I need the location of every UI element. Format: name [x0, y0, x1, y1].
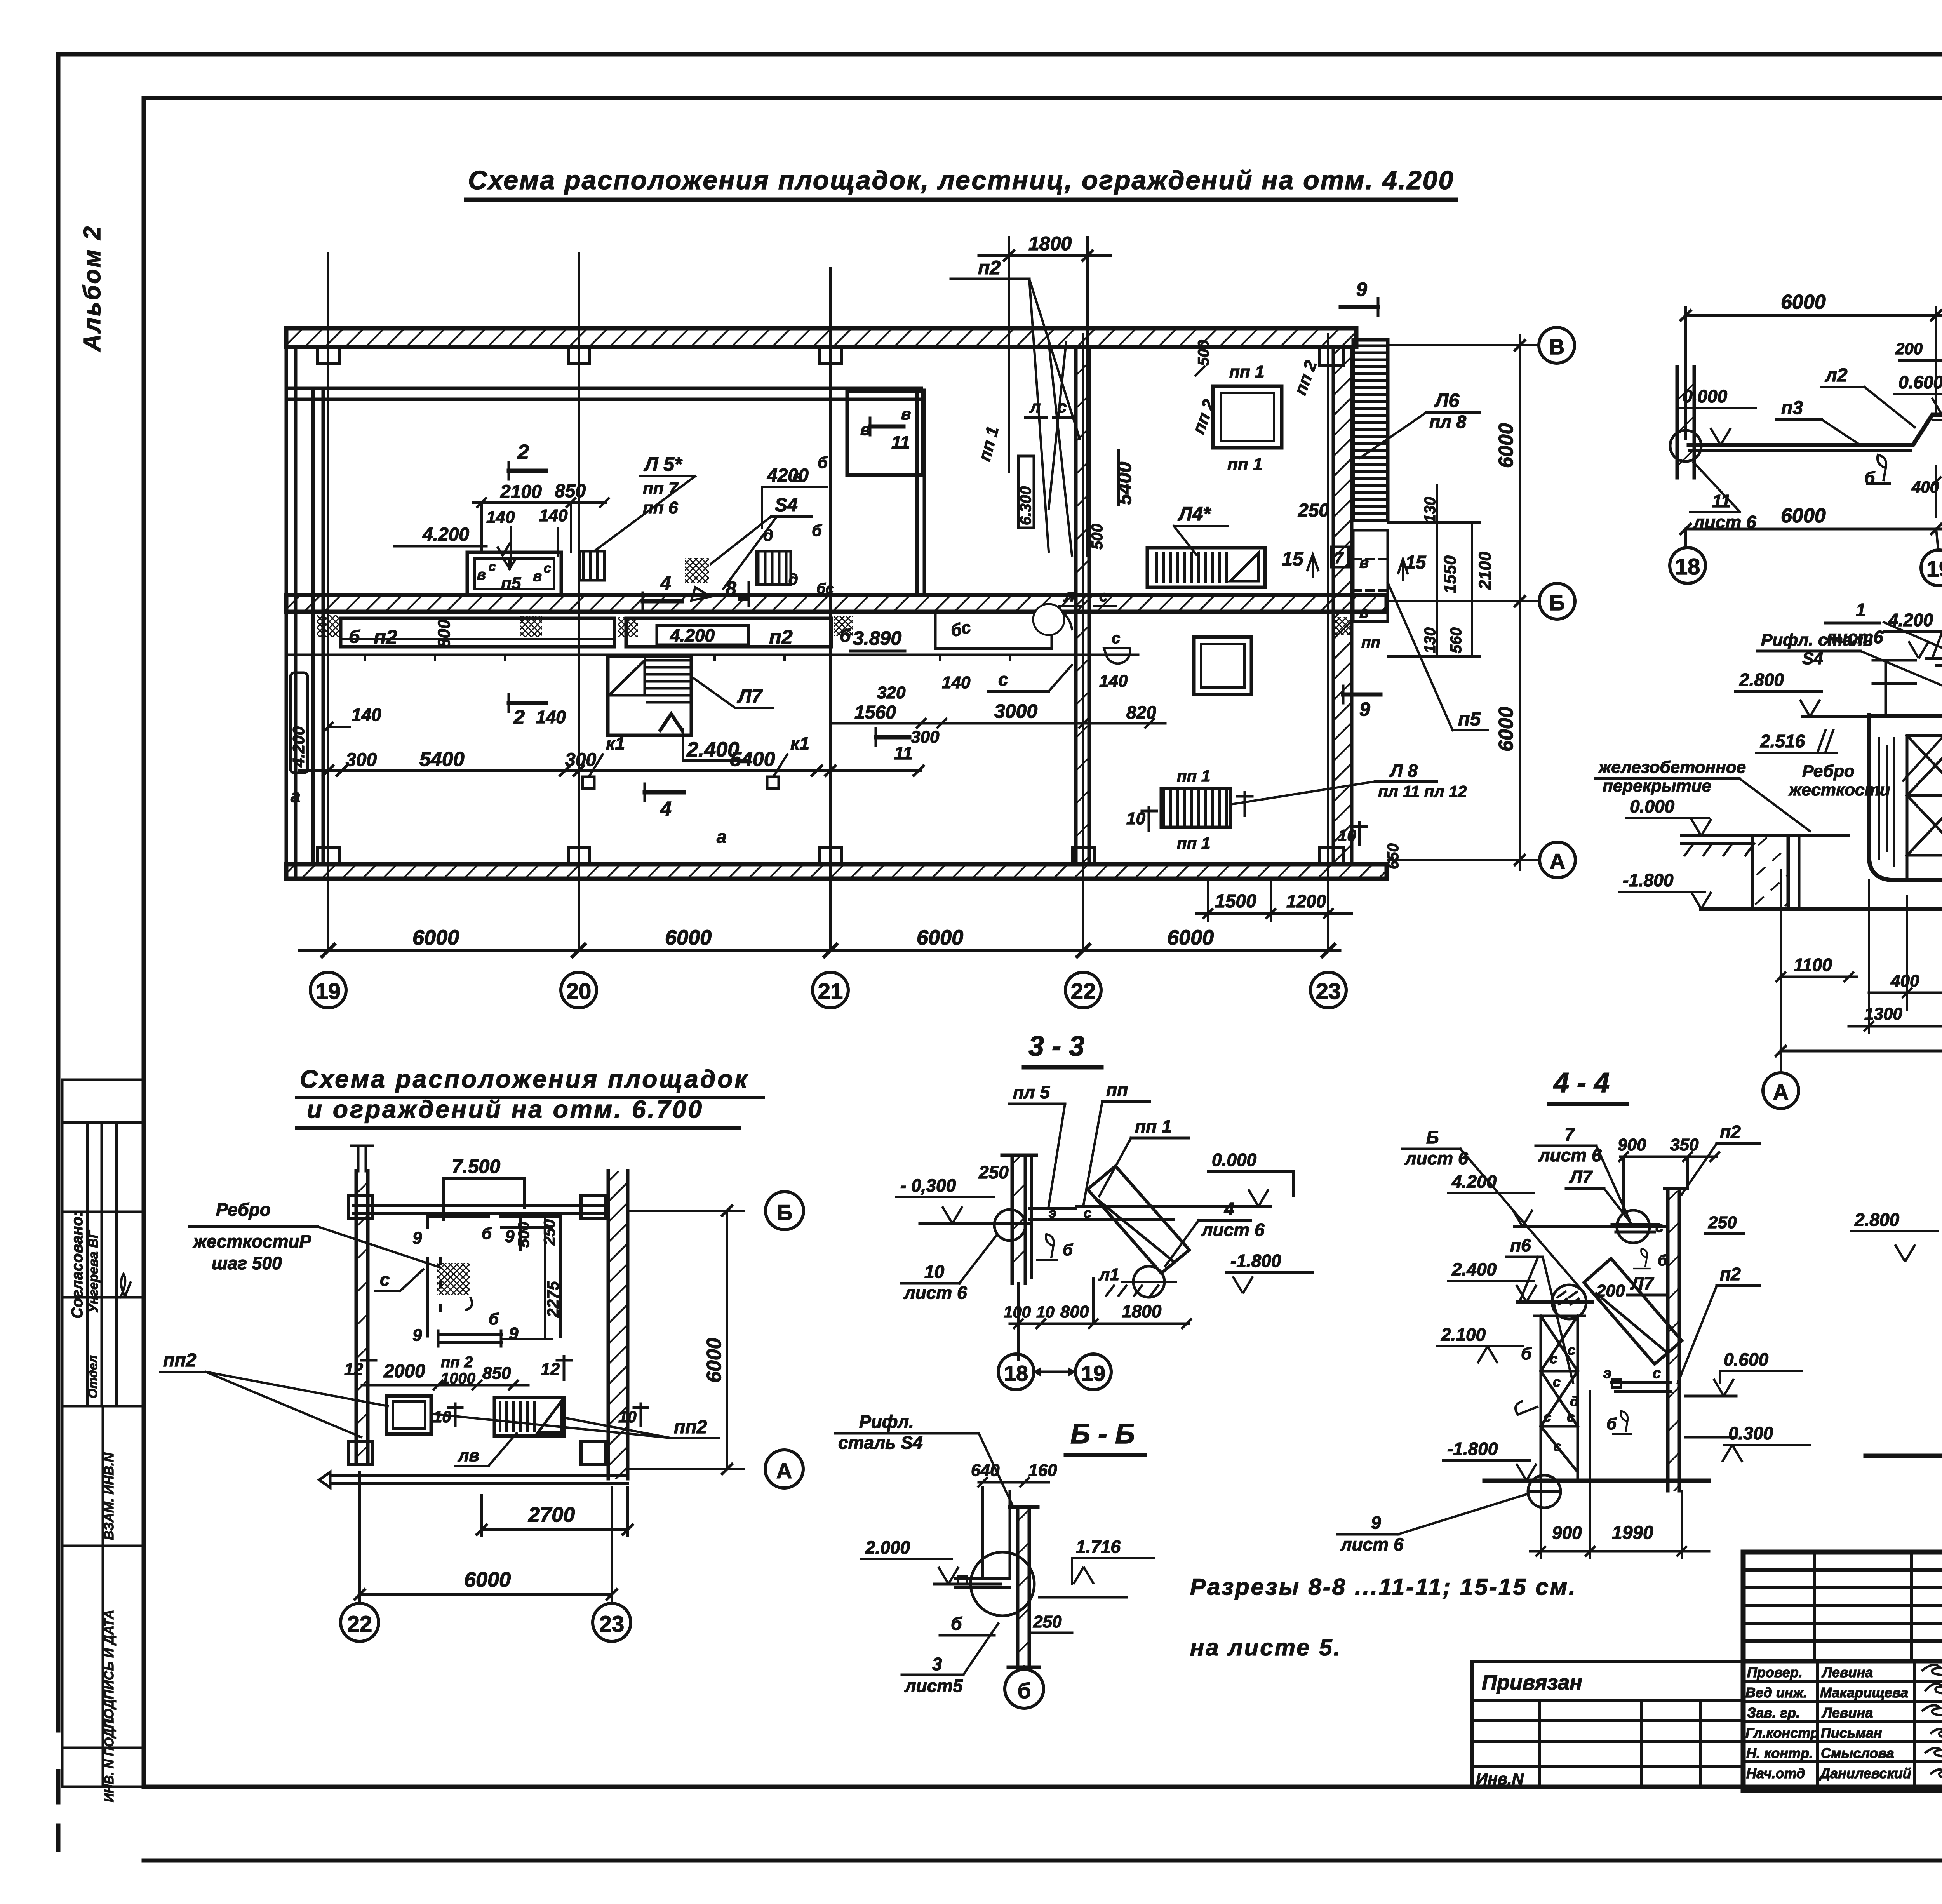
svg-text:Л 5*: Л 5*	[644, 453, 683, 475]
svg-text:Унгерева ВГ: Унгерева ВГ	[86, 1229, 101, 1313]
svg-text:4.200: 4.200	[1888, 610, 1933, 630]
svg-text:в: в	[477, 567, 486, 583]
svg-text:лист 6: лист 6	[903, 1283, 967, 1303]
svg-text:7.500: 7.500	[452, 1156, 500, 1177]
svg-text:пп: пп	[1361, 634, 1380, 651]
svg-text:Л7: Л7	[737, 686, 763, 707]
svg-text:2100: 2100	[500, 482, 542, 502]
svg-text:21: 21	[818, 979, 843, 1004]
svg-text:19: 19	[1926, 557, 1942, 582]
svg-text:п2: п2	[978, 257, 1001, 278]
left margin stamp column	[62, 1080, 144, 1787]
svg-text:11: 11	[891, 432, 910, 453]
svg-text:3000: 3000	[994, 700, 1037, 722]
svg-text:1560: 1560	[854, 702, 896, 723]
svg-text:2: 2	[513, 706, 525, 729]
svg-text:6000: 6000	[1495, 707, 1517, 752]
axis line 21	[829, 268, 832, 950]
axis circle А	[1763, 1073, 1799, 1109]
svg-text:2.516: 2.516	[1760, 731, 1805, 751]
svg-text:S4: S4	[775, 495, 798, 515]
svg-text:шаг 500: шаг 500	[212, 1253, 282, 1273]
svg-text:э: э	[1603, 1365, 1611, 1382]
top beam	[353, 1206, 608, 1213]
svg-text:850: 850	[555, 481, 586, 501]
svg-text:пп 1: пп 1	[1229, 362, 1264, 381]
svg-text:500: 500	[515, 1222, 532, 1248]
svg-text:-1.800: -1.800	[1230, 1251, 1281, 1271]
svg-text:пп2: пп2	[163, 1350, 197, 1371]
bottom dim line 6000 6000 6000	[1686, 528, 1942, 531]
svg-text:10: 10	[924, 1262, 945, 1282]
ground line	[1484, 1479, 1709, 1483]
post with hatch	[1012, 1155, 1025, 1283]
svg-text:2.400: 2.400	[1451, 1259, 1497, 1279]
top dim line 6000 6000 200 200 5400 400	[1686, 314, 1942, 317]
middle wall row Б	[286, 595, 1387, 612]
6.300 vertical box	[1018, 456, 1034, 528]
svg-text:Л7: Л7	[1569, 1167, 1593, 1187]
svg-text:1300: 1300	[1864, 1004, 1902, 1023]
svg-text:Нач.отд: Нач.отд	[1746, 1765, 1805, 1781]
svg-text:8: 8	[726, 578, 736, 599]
svg-text:11: 11	[1712, 491, 1731, 511]
mesh blob + arrow S4	[685, 558, 709, 583]
svg-text:140: 140	[352, 705, 381, 725]
svg-text:пп 1: пп 1	[1135, 1116, 1172, 1136]
svg-text:пл 8: пл 8	[1429, 412, 1466, 432]
svg-text:20: 20	[566, 979, 592, 1004]
svg-text:-1.800: -1.800	[1623, 870, 1674, 890]
svg-text:б: б	[1606, 1415, 1617, 1433]
svg-text:Зав. гр.: Зав. гр.	[1747, 1705, 1800, 1721]
svg-text:Смыслова: Смыслова	[1821, 1745, 1894, 1761]
svg-text:130: 130	[1422, 497, 1439, 523]
svg-text:1550: 1550	[1441, 555, 1460, 593]
svg-text:ВЗАМ. ИНВ.N: ВЗАМ. ИНВ.N	[102, 1452, 117, 1540]
svg-text:Б: Б	[777, 1200, 792, 1225]
svg-text:6000: 6000	[1781, 505, 1826, 527]
svg-text:2000: 2000	[383, 1361, 425, 1382]
upper interior wall	[286, 388, 921, 399]
lower stamp main horizontals	[1743, 1659, 1942, 1664]
svg-text:11: 11	[894, 743, 913, 763]
svg-text:350: 350	[1670, 1135, 1699, 1154]
platform lines	[1029, 1209, 1173, 1220]
svg-text:п5: п5	[501, 574, 521, 593]
svg-text:130: 130	[1422, 627, 1439, 653]
svg-text:6000: 6000	[1781, 291, 1826, 313]
svg-text:с: с	[1553, 1374, 1561, 1390]
svg-text:1100: 1100	[1794, 955, 1832, 975]
svg-text:6000: 6000	[703, 1338, 726, 1383]
svg-text:Б - Б: Б - Б	[1070, 1418, 1135, 1450]
п5 platform mid-plan	[467, 552, 561, 595]
svg-text:б: б	[951, 1613, 962, 1634]
sheet outer border top	[58, 52, 1942, 57]
svg-text:2.100: 2.100	[1441, 1324, 1486, 1345]
svg-text:пп 7: пп 7	[643, 479, 679, 498]
svg-text:9: 9	[412, 1229, 422, 1248]
foundation hatched	[1752, 836, 1788, 908]
stair block at 1950 on wall Б	[757, 551, 791, 585]
bottom column stubs	[318, 847, 339, 864]
svg-text:6000: 6000	[1495, 423, 1517, 468]
svg-text:850: 850	[482, 1364, 511, 1383]
svg-text:10: 10	[1338, 826, 1356, 844]
svg-text:6000: 6000	[464, 1568, 511, 1591]
svg-text:Б: Б	[1426, 1127, 1439, 1147]
svg-text:23: 23	[1316, 979, 1341, 1004]
svg-text:140: 140	[536, 707, 566, 727]
svg-text:б: б	[1521, 1344, 1532, 1363]
svg-text:22: 22	[1071, 979, 1096, 1004]
svg-text:3: 3	[932, 1654, 942, 1674]
room box right of stair	[847, 392, 922, 475]
axis circle 22	[341, 1603, 379, 1641]
svg-text:9: 9	[505, 1227, 515, 1246]
svg-text:д: д	[788, 571, 798, 588]
column stubs under top wall	[318, 347, 339, 364]
svg-text:с: с	[1084, 1205, 1091, 1221]
svg-text:3 - 3: 3 - 3	[1028, 1031, 1084, 1062]
svg-text:к1: к1	[606, 733, 625, 754]
signature	[120, 1274, 131, 1297]
axis line 23	[1327, 334, 1329, 950]
svg-text:лист 6: лист 6	[1201, 1220, 1265, 1240]
svg-text:на листе 5.: на листе 5.	[1190, 1634, 1342, 1660]
svg-text:4.200: 4.200	[670, 625, 715, 646]
platform lower right	[1611, 1383, 1670, 1391]
svg-text:Данилевский: Данилевский	[1819, 1765, 1911, 1781]
rail posts above tank	[1873, 660, 1916, 715]
svg-text:900: 900	[1552, 1523, 1582, 1543]
bottom edge	[330, 1476, 628, 1484]
vertical 4.200 box on left wall	[291, 673, 308, 773]
svg-text:6000: 6000	[917, 926, 963, 949]
svg-text:п5: п5	[1458, 708, 1481, 730]
svg-text:с: с	[380, 1269, 390, 1290]
right wall hatched	[1668, 1191, 1679, 1491]
svg-text:Ребро: Ребро	[216, 1199, 271, 1220]
svg-text:4: 4	[660, 572, 671, 594]
svg-text:4 - 4: 4 - 4	[1553, 1067, 1610, 1098]
svg-text:лист5: лист5	[904, 1676, 963, 1696]
svg-text:пп2: пп2	[674, 1417, 707, 1438]
svg-text:1800: 1800	[1028, 233, 1072, 254]
svg-text:А: А	[776, 1458, 792, 1483]
X brace tower	[1534, 1316, 1585, 1481]
svg-text:с: с	[1655, 1219, 1664, 1236]
svg-text:Отдел: Отдел	[86, 1355, 100, 1398]
svg-text:б: б	[1063, 1241, 1073, 1259]
svg-text:Вед инж.: Вед инж.	[1745, 1685, 1807, 1700]
ground line	[1865, 1454, 1942, 1458]
svg-text:пп 1: пп 1	[1227, 455, 1262, 474]
svg-text:железобетонное: железобетонное	[1598, 758, 1746, 777]
svg-text:Левина: Левина	[1821, 1664, 1873, 1680]
axis circle 19	[310, 972, 346, 1008]
svg-text:Л 8: Л 8	[1389, 761, 1418, 781]
svg-text:Провер.: Провер.	[1747, 1664, 1803, 1680]
svg-text:Рифл.: Рифл.	[859, 1411, 914, 1432]
svg-text:23: 23	[599, 1612, 625, 1637]
svg-text:А: А	[1550, 849, 1565, 874]
svg-text:250: 250	[978, 1162, 1009, 1182]
railing room	[428, 1217, 561, 1336]
svg-text:л2: л2	[1825, 365, 1848, 386]
svg-text:18: 18	[1004, 1361, 1028, 1385]
svg-text:в: в	[533, 568, 542, 585]
svg-text:6000: 6000	[665, 926, 712, 949]
platform bars	[955, 1579, 1010, 1588]
left support column hatched	[1677, 367, 1694, 478]
svg-text:200: 200	[1895, 339, 1923, 358]
top exterior wall row В	[286, 328, 1356, 347]
svg-text:500: 500	[1089, 524, 1106, 550]
svg-text:1200: 1200	[1286, 891, 1326, 911]
svg-text:жесткостиР: жесткостиР	[192, 1231, 311, 1251]
svg-text:с: с	[1550, 1351, 1557, 1366]
svg-text:пл 11 пл 12: пл 11 пл 12	[1378, 782, 1467, 801]
tank left	[1869, 715, 1942, 880]
svg-text:В: В	[1549, 334, 1564, 359]
пп2 opening	[386, 1396, 431, 1434]
axis circle 23	[1310, 972, 1346, 1008]
svg-text:10: 10	[618, 1408, 637, 1426]
floor slab	[1682, 836, 1849, 844]
svg-text:7: 7	[1335, 550, 1344, 567]
right exterior wall hatched	[1333, 347, 1352, 864]
stamp outer box	[1743, 1552, 1942, 1791]
square opening lower	[1194, 637, 1251, 694]
svg-text:лист 6: лист 6	[1538, 1145, 1602, 1165]
signatures	[1923, 1665, 1942, 1778]
п2 platform strip left	[341, 618, 614, 647]
svg-text:4: 4	[1224, 1199, 1234, 1219]
vertical dim 6000 6000 right	[1519, 335, 1521, 870]
svg-text:в: в	[1359, 604, 1369, 621]
corner columns	[349, 1196, 373, 1218]
svg-text:пл 5: пл 5	[1013, 1082, 1050, 1102]
X brace column	[1907, 736, 1942, 880]
svg-text:400: 400	[1890, 971, 1919, 990]
svg-text:640: 640	[971, 1461, 1000, 1480]
svg-text:в: в	[901, 405, 911, 423]
room partition vertical at 2372	[917, 390, 924, 595]
svg-text:1990: 1990	[1612, 1523, 1653, 1543]
svg-text:жесткости: жесткости	[1788, 780, 1890, 799]
svg-text:250: 250	[1033, 1612, 1062, 1631]
svg-text:к1: к1	[790, 733, 809, 754]
svg-text:ПОДПИСЬ И ДАТА: ПОДПИСЬ И ДАТА	[102, 1610, 117, 1728]
svg-text:250: 250	[1708, 1213, 1737, 1232]
left exterior wall double lines	[286, 328, 323, 879]
svg-text:6000: 6000	[1167, 926, 1214, 949]
inclined ladder	[1088, 1166, 1189, 1273]
svg-text:Привязан: Привязан	[1482, 1671, 1582, 1694]
svg-text:Б: Б	[1549, 590, 1565, 615]
svg-text:а: а	[291, 786, 301, 806]
svg-text:160: 160	[1028, 1461, 1057, 1480]
svg-text:400: 400	[1911, 478, 1939, 496]
svg-text:п6: п6	[1510, 1235, 1531, 1255]
svg-text:4.200: 4.200	[289, 726, 308, 768]
ground line	[1701, 907, 1942, 911]
sheet outer border bottom	[144, 1859, 1942, 1863]
stair пп1 bottom	[1161, 788, 1230, 827]
detail circle	[971, 1552, 1034, 1616]
svg-text:Рифл. сталь: Рифл. сталь	[1761, 630, 1873, 649]
svg-text:с: с	[1567, 1409, 1575, 1425]
svg-text:пп 2: пп 2	[441, 1354, 473, 1371]
svg-text:9: 9	[412, 1326, 422, 1345]
svg-text:ИНВ. N ПОДЛ.: ИНВ. N ПОДЛ.	[102, 1717, 116, 1802]
svg-text:-1.800: -1.800	[1447, 1439, 1498, 1459]
svg-text:с: с	[1653, 1365, 1661, 1382]
svg-text:2.800: 2.800	[1854, 1210, 1900, 1230]
mesh blobs on strip	[317, 615, 339, 637]
upper revision grid	[1743, 1552, 1942, 1661]
svg-text:с: с	[1544, 1409, 1551, 1425]
svg-text:б: б	[482, 1224, 492, 1243]
svg-text:1.716: 1.716	[1076, 1537, 1121, 1557]
svg-text:лист 6: лист 6	[1340, 1534, 1404, 1554]
svg-text:п2: п2	[374, 626, 397, 649]
axis line 20	[578, 253, 580, 950]
svg-text:1: 1	[1856, 600, 1866, 620]
svg-text:0.000: 0.000	[1683, 386, 1728, 406]
circles Б А right	[628, 1210, 744, 1212]
name/sign columns	[1818, 1661, 1942, 1791]
svg-text:2.000: 2.000	[865, 1537, 910, 1558]
svg-text:Левина: Левина	[1821, 1705, 1873, 1721]
svg-text:Альбом 2: Альбом 2	[79, 225, 106, 352]
svg-text:э: э	[1049, 1205, 1056, 1221]
п5 shaft below stair	[1353, 530, 1388, 621]
бс block left	[929, 604, 934, 608]
svg-text:и ограждений на отм. 6.700: и ограждений на отм. 6.700	[307, 1095, 704, 1123]
svg-text:18: 18	[1675, 554, 1700, 580]
б brace	[1036, 1234, 1058, 1260]
svg-text:140: 140	[539, 506, 568, 525]
svg-text:Л4*: Л4*	[1178, 503, 1211, 525]
svg-text:Н. контр.: Н. контр.	[1746, 1745, 1813, 1761]
axis circle 22	[1065, 972, 1101, 1008]
svg-text:6.300: 6.300	[1017, 486, 1034, 525]
svg-text:250: 250	[1298, 500, 1329, 521]
svg-text:800: 800	[435, 619, 454, 648]
partition wall at 2785	[1076, 347, 1089, 864]
svg-text:А: А	[1773, 1080, 1789, 1104]
top post stubs	[352, 1146, 373, 1171]
stair Л7 in plan	[608, 656, 691, 735]
svg-text:300: 300	[911, 727, 940, 747]
п2 platform strip right with 4.200 box	[626, 618, 831, 647]
б braces under platforms	[1866, 455, 1891, 484]
svg-text:4.200: 4.200	[1451, 1171, 1497, 1192]
svg-text:с: с	[998, 669, 1008, 689]
svg-text:Согласовано:: Согласовано:	[69, 1211, 86, 1319]
ticked edge line below Б wall	[286, 654, 1138, 656]
svg-text:- 0,300: - 0,300	[900, 1175, 956, 1196]
svg-text:15: 15	[1405, 552, 1427, 573]
stair Л5* small on wall Б	[580, 551, 605, 580]
svg-text:б: б	[840, 625, 851, 646]
svg-text:Макарищева: Макарищева	[1820, 1685, 1908, 1700]
пп1 пп2 opening top right	[1213, 386, 1282, 448]
svg-text:2.800: 2.800	[1739, 670, 1784, 690]
svg-text:7: 7	[1564, 1124, 1575, 1144]
svg-text:300: 300	[346, 750, 377, 770]
svg-text:9: 9	[1356, 278, 1367, 300]
hatched plate	[1018, 1509, 1029, 1665]
svg-text:140: 140	[942, 673, 971, 692]
right wall hatched	[608, 1171, 628, 1479]
svg-text:4200: 4200	[767, 465, 809, 486]
svg-text:0.600: 0.600	[1898, 372, 1942, 392]
svg-text:19: 19	[316, 979, 341, 1004]
svg-text:4: 4	[660, 798, 672, 820]
svg-text:д: д	[763, 526, 773, 544]
svg-text:Разрезы 8-8 ...11-11; 15-15 с: Разрезы 8-8 ...11-11; 15-15 см.	[1190, 1574, 1577, 1600]
svg-text:пп 1: пп 1	[1177, 834, 1210, 852]
svg-text:л1: л1	[1098, 1265, 1119, 1284]
svg-text:12: 12	[344, 1360, 363, 1379]
svg-text:250: 250	[541, 1219, 558, 1246]
svg-text:а: а	[717, 827, 727, 847]
л с door arc	[1045, 606, 1072, 629]
stair ЛВ	[494, 1398, 564, 1436]
axis circle 19	[1936, 529, 1938, 549]
marker 7 box	[1331, 547, 1349, 567]
axis circle 21	[813, 972, 848, 1008]
inclined ladder Л7	[1584, 1258, 1682, 1364]
detail circle mid	[1552, 1285, 1586, 1319]
svg-text:5400: 5400	[419, 748, 465, 771]
svg-text:пп 1: пп 1	[1177, 767, 1210, 785]
svg-text:Схема расположения площадок,: Схема расположения площадок, лестниц, ог…	[468, 165, 1454, 195]
svg-text:л: л	[1063, 586, 1075, 605]
svg-text:9: 9	[1371, 1512, 1381, 1533]
mesh block	[437, 1263, 470, 1295]
stair Л4*	[1147, 548, 1265, 587]
svg-text:22: 22	[347, 1612, 372, 1637]
axis circle 20	[561, 972, 597, 1008]
svg-text:9: 9	[1359, 698, 1370, 720]
svg-text:3.890: 3.890	[853, 627, 901, 649]
svg-text:п2: п2	[769, 626, 793, 649]
svg-text:0.300: 0.300	[1728, 1423, 1773, 1443]
svg-text:б: б	[818, 453, 828, 472]
svg-text:п2: п2	[1720, 1122, 1741, 1142]
svg-text:6000: 6000	[412, 926, 459, 949]
platform п3 level line	[1689, 415, 1942, 445]
svg-text:в: в	[1359, 554, 1369, 571]
axis circles 18 19	[998, 1354, 1034, 1390]
row circles В Б А right of plan	[1388, 344, 1539, 346]
svg-text:1800: 1800	[1122, 1301, 1162, 1321]
svg-text:п2: п2	[1720, 1264, 1741, 1284]
left column of plan	[356, 1171, 368, 1463]
svg-text:2: 2	[517, 440, 529, 464]
svg-text:д: д	[1570, 1393, 1578, 1409]
svg-text:б: б	[1018, 1678, 1031, 1703]
svg-text:п3: п3	[1781, 398, 1803, 418]
svg-text:Инв.N: Инв.N	[1476, 1770, 1524, 1788]
svg-text:Л7: Л7	[1630, 1273, 1655, 1293]
svg-text:650: 650	[1385, 843, 1402, 869]
